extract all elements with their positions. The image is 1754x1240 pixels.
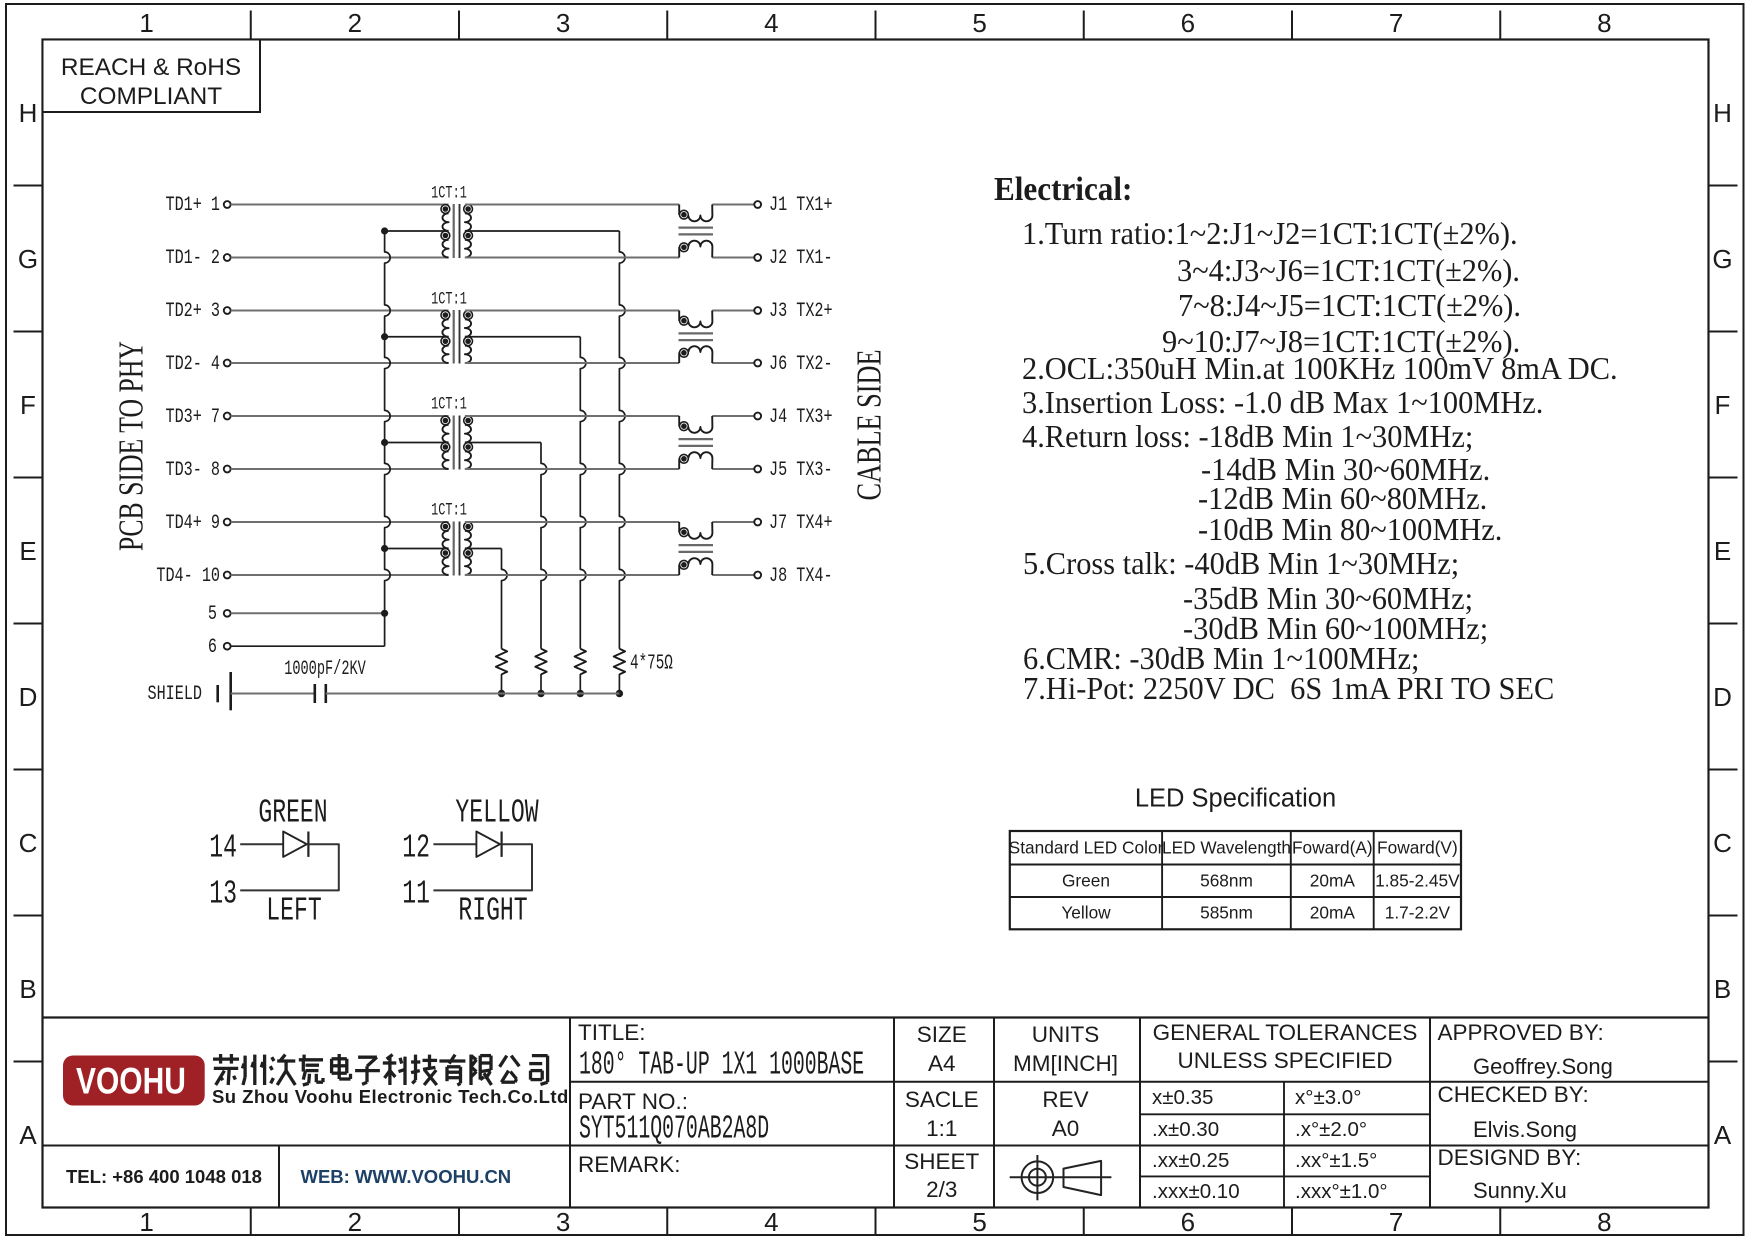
pin label TD4- 10 bbox=[156, 567, 220, 587]
ruler letter G left bbox=[18, 246, 38, 272]
ruler number 5 top bbox=[972, 10, 986, 36]
pin terminal TD1- 2 bbox=[224, 254, 231, 261]
ruler letter G right bbox=[1712, 246, 1732, 272]
table title LED Specification bbox=[1135, 786, 1336, 812]
pin label 12 bbox=[402, 831, 430, 864]
ruler tick left bbox=[14, 477, 43, 479]
LED specification table bbox=[1010, 831, 1461, 929]
wire row 2 PHY side bbox=[231, 257, 449, 259]
ruler letter F right bbox=[1715, 392, 1731, 418]
jack label J5 TX3- bbox=[769, 461, 833, 481]
pin terminal TD3- 8 bbox=[224, 466, 231, 473]
ruler tick right bbox=[1709, 623, 1738, 625]
ruler tick right bbox=[1709, 1061, 1738, 1063]
junction pin5/bus bbox=[381, 610, 388, 617]
ruler tick top bbox=[250, 11, 252, 40]
wire row 4 PHY side bbox=[231, 362, 449, 364]
resistor 75ohm R4 bbox=[496, 649, 507, 675]
ruler letter D left bbox=[19, 684, 38, 710]
jack terminal J8 TX4- bbox=[754, 572, 761, 579]
ruler tick bottom bbox=[458, 1208, 460, 1237]
ruler letter H right bbox=[1713, 100, 1732, 126]
pin label TD2+ 3 bbox=[165, 302, 220, 322]
VOOHU logo bbox=[63, 1056, 205, 1106]
ruler tick bottom bbox=[666, 1208, 668, 1237]
transformer T1 1CT:1 bbox=[441, 204, 473, 258]
ruler letter F left bbox=[20, 392, 36, 418]
ruler tick top bbox=[666, 11, 668, 40]
resistor 75ohm R1 bbox=[614, 649, 625, 675]
note electrical specifications bbox=[994, 173, 1132, 207]
wire primary center tap T2 bbox=[385, 336, 449, 338]
company name (CJK) bbox=[213, 1054, 548, 1085]
junction primary CT bus bbox=[381, 439, 388, 446]
ruler number 5 bottom bbox=[972, 1209, 986, 1235]
part number bbox=[579, 1112, 769, 1145]
capacitor C1 1000pF/2KV bbox=[313, 684, 316, 703]
wire row 8 cable side bbox=[465, 574, 679, 576]
wire secondary center tap T4 bbox=[465, 548, 502, 550]
pin label 11 bbox=[402, 878, 430, 911]
value label 4*75ohm bbox=[630, 654, 673, 675]
ruler tick left bbox=[14, 1061, 43, 1063]
ruler tick left bbox=[14, 185, 43, 187]
ruler tick left bbox=[14, 331, 43, 333]
ruler tick top bbox=[1083, 11, 1085, 40]
jack label J4 TX3+ bbox=[769, 408, 833, 428]
pin label 14 bbox=[209, 831, 237, 864]
junction R3/shield bus bbox=[537, 690, 544, 697]
TEL bbox=[66, 1167, 262, 1186]
wire primary center tap T1 bbox=[385, 230, 449, 232]
ruler tick bottom bbox=[1499, 1208, 1501, 1237]
junction primary CT bus bbox=[381, 227, 388, 234]
wire shield bus bbox=[326, 693, 620, 695]
ruler number 3 bottom bbox=[556, 1209, 570, 1235]
pin terminal TD3+ 7 bbox=[224, 413, 231, 420]
wire row 5 cable side bbox=[465, 415, 679, 417]
jack label J2 TX1- bbox=[769, 249, 833, 269]
wire pin 6 to bus bbox=[231, 645, 385, 647]
pin terminal 5 bbox=[224, 610, 231, 617]
ruler number 7 bottom bbox=[1389, 1209, 1403, 1235]
pin label TD2- 4 bbox=[165, 355, 220, 375]
title block lines bbox=[43, 1018, 1709, 1208]
pin terminal TD2+ 3 bbox=[224, 307, 231, 314]
pin terminal TD4+ 9 bbox=[224, 519, 231, 526]
wire row 7 cable side bbox=[465, 521, 679, 523]
shield chassis symbol bbox=[216, 685, 219, 702]
WEB bbox=[301, 1167, 512, 1186]
ruler tick right bbox=[1709, 477, 1738, 479]
ruler letter B right bbox=[1714, 976, 1731, 1002]
wire row 4 cable side bbox=[465, 362, 679, 364]
jack terminal J2 TX1- bbox=[754, 254, 761, 261]
jack label J7 TX4+ bbox=[769, 514, 833, 534]
pin label TD1+ 1 bbox=[165, 196, 220, 216]
ruler letter B left bbox=[19, 976, 36, 1002]
wire primary center tap T3 bbox=[385, 442, 449, 444]
wire row 1 CMC to jack bbox=[712, 204, 754, 206]
wire R1 to shield bus bbox=[618, 674, 620, 694]
wire secondary center tap T1 bbox=[465, 230, 620, 232]
pin terminal TD2- 4 bbox=[224, 360, 231, 367]
wire row 5 CMC to jack bbox=[712, 415, 754, 417]
jack label J3 TX2+ bbox=[769, 302, 833, 322]
ruler tick right bbox=[1709, 769, 1738, 771]
wire secondary CT drop T1 bbox=[619, 231, 625, 649]
wire row 3 PHY side bbox=[231, 310, 449, 312]
LED colour label YELLOW bbox=[455, 797, 538, 830]
pin label TD3+ 7 bbox=[165, 408, 220, 428]
pin label TD4+ 9 bbox=[165, 514, 220, 534]
transformer T2 1CT:1 bbox=[441, 310, 473, 364]
junction R1/shield bus bbox=[616, 690, 623, 697]
ruler tick top bbox=[1499, 11, 1501, 40]
value label 1CT:1 T4 bbox=[431, 503, 467, 521]
common-mode choke L2 bbox=[679, 311, 714, 364]
ruler letter C left bbox=[19, 830, 38, 856]
junction primary CT bus bbox=[381, 545, 388, 552]
wire row 7 PHY side bbox=[231, 521, 449, 523]
value label 1CT:1 T1 bbox=[431, 185, 467, 203]
resistor 75ohm R3 bbox=[535, 649, 546, 675]
wire secondary center tap T2 bbox=[465, 336, 580, 338]
title text bbox=[579, 1049, 864, 1082]
LED position label RIGHT bbox=[458, 895, 527, 928]
wire secondary center tap T3 bbox=[465, 442, 541, 444]
LED position label LEFT bbox=[266, 895, 321, 928]
wire primary center tap T4 bbox=[385, 548, 449, 550]
ruler number 1 top bbox=[139, 10, 153, 36]
ruler number 8 top bbox=[1597, 10, 1611, 36]
wire row 1 cable side bbox=[465, 204, 679, 206]
ruler number 3 top bbox=[556, 10, 570, 36]
svg-text:CABLE SIDE: CABLE SIDE bbox=[850, 350, 889, 501]
wire row 1 PHY side bbox=[231, 204, 449, 206]
resistor 75ohm R2 bbox=[575, 649, 586, 675]
wire primary center-tap bus bbox=[385, 231, 391, 646]
wire secondary CT drop T4 bbox=[502, 549, 508, 649]
common-mode choke L1 bbox=[679, 205, 714, 258]
pin terminal 6 bbox=[224, 643, 231, 650]
ruler letter A right bbox=[1714, 1122, 1731, 1148]
jack label J8 TX4- bbox=[769, 567, 833, 587]
wire row 5 PHY side bbox=[231, 415, 449, 417]
ruler number 2 top bbox=[348, 10, 362, 36]
jack terminal J6 TX2- bbox=[754, 360, 761, 367]
LED GREEN bbox=[240, 832, 339, 891]
ruler number 8 bottom bbox=[1597, 1209, 1611, 1235]
junction R2/shield bus bbox=[577, 690, 584, 697]
wire row 3 CMC to jack bbox=[712, 310, 754, 312]
common-mode choke L4 bbox=[679, 522, 714, 575]
ruler letter D right bbox=[1713, 684, 1732, 710]
ruler tick right bbox=[1709, 915, 1738, 917]
pin label 13 bbox=[209, 878, 237, 911]
ruler letter E left bbox=[19, 538, 36, 564]
pin label TD1- 2 bbox=[165, 249, 220, 269]
value label 1CT:1 T2 bbox=[431, 291, 467, 309]
REACH & RoHS compliant box bbox=[43, 40, 261, 113]
jack terminal J3 TX2+ bbox=[754, 307, 761, 314]
LED YELLOW bbox=[433, 832, 532, 891]
jack terminal J1 TX1+ bbox=[754, 201, 761, 208]
ruler number 4 bottom bbox=[764, 1209, 778, 1235]
jack terminal J5 TX3- bbox=[754, 466, 761, 473]
value label 1CT:1 T3 bbox=[431, 397, 467, 415]
ruler letter H left bbox=[19, 100, 38, 126]
ruler tick bottom bbox=[250, 1208, 252, 1237]
pin label 5 bbox=[208, 605, 217, 625]
pin label TD3- 8 bbox=[165, 461, 220, 481]
jack terminal J4 TX3+ bbox=[754, 413, 761, 420]
ruler tick bottom bbox=[1083, 1208, 1085, 1237]
ruler number 4 top bbox=[764, 10, 778, 36]
wire R2 to shield bus bbox=[579, 674, 581, 694]
ruler number 6 bottom bbox=[1181, 1209, 1195, 1235]
pin terminal TD4- 10 bbox=[224, 572, 231, 579]
ruler tick top bbox=[458, 11, 460, 40]
ruler tick left bbox=[14, 769, 43, 771]
third angle projection symbol bbox=[1010, 1155, 1112, 1200]
ruler tick bottom bbox=[1291, 1208, 1293, 1237]
ruler tick right bbox=[1709, 331, 1738, 333]
wire R3 to shield bus bbox=[540, 674, 542, 694]
jack label J6 TX2- bbox=[769, 355, 833, 375]
transformer T4 1CT:1 bbox=[441, 522, 473, 576]
wire row 6 PHY side bbox=[231, 468, 449, 470]
ruler tick left bbox=[14, 623, 43, 625]
wire pin 5 to bus bbox=[231, 612, 385, 614]
ruler number 1 bottom bbox=[139, 1209, 153, 1235]
ruler tick left bbox=[14, 915, 43, 917]
common-mode choke L3 bbox=[679, 416, 714, 469]
ruler number 6 top bbox=[1181, 10, 1195, 36]
ruler letter A left bbox=[19, 1122, 36, 1148]
wire row 2 cable side bbox=[465, 257, 679, 259]
wire R4 to shield bus bbox=[501, 674, 503, 694]
wire row 6 CMC to jack bbox=[712, 468, 754, 470]
jack terminal J7 TX4+ bbox=[754, 519, 761, 526]
ruler letter C right bbox=[1713, 830, 1732, 856]
value label 1000pF/2KV bbox=[284, 660, 366, 680]
ruler tick bottom bbox=[875, 1208, 877, 1237]
pin terminal TD1+ 1 bbox=[224, 201, 231, 208]
junction primary CT bus bbox=[381, 333, 388, 340]
wire row 4 CMC to jack bbox=[712, 362, 754, 364]
wire secondary CT drop T3 bbox=[541, 443, 547, 649]
ruler tick right bbox=[1709, 185, 1738, 187]
wire row 7 CMC to jack bbox=[712, 521, 754, 523]
wire row 2 CMC to jack bbox=[712, 257, 754, 259]
ruler letter E right bbox=[1714, 538, 1731, 564]
transformer T3 1CT:1 bbox=[441, 416, 473, 470]
LED colour label GREEN bbox=[258, 797, 327, 830]
wire row 3 cable side bbox=[465, 310, 679, 312]
jack label J1 TX1+ bbox=[769, 196, 833, 216]
wire secondary CT drop T2 bbox=[580, 337, 586, 649]
ruler tick top bbox=[875, 11, 877, 40]
pin label 6 bbox=[208, 638, 217, 658]
wire shield to capacitor bbox=[231, 693, 315, 695]
wire row 8 CMC to jack bbox=[712, 574, 754, 576]
junction R4/shield bus bbox=[498, 690, 505, 697]
svg-text:PCB SIDE TO PHY: PCB SIDE TO PHY bbox=[112, 341, 151, 551]
net label SHIELD bbox=[147, 685, 202, 705]
ruler tick top bbox=[1291, 11, 1293, 40]
ruler number 2 bottom bbox=[348, 1209, 362, 1235]
wire row 8 PHY side bbox=[231, 574, 449, 576]
wire row 6 cable side bbox=[465, 468, 679, 470]
ruler number 7 top bbox=[1389, 10, 1403, 36]
